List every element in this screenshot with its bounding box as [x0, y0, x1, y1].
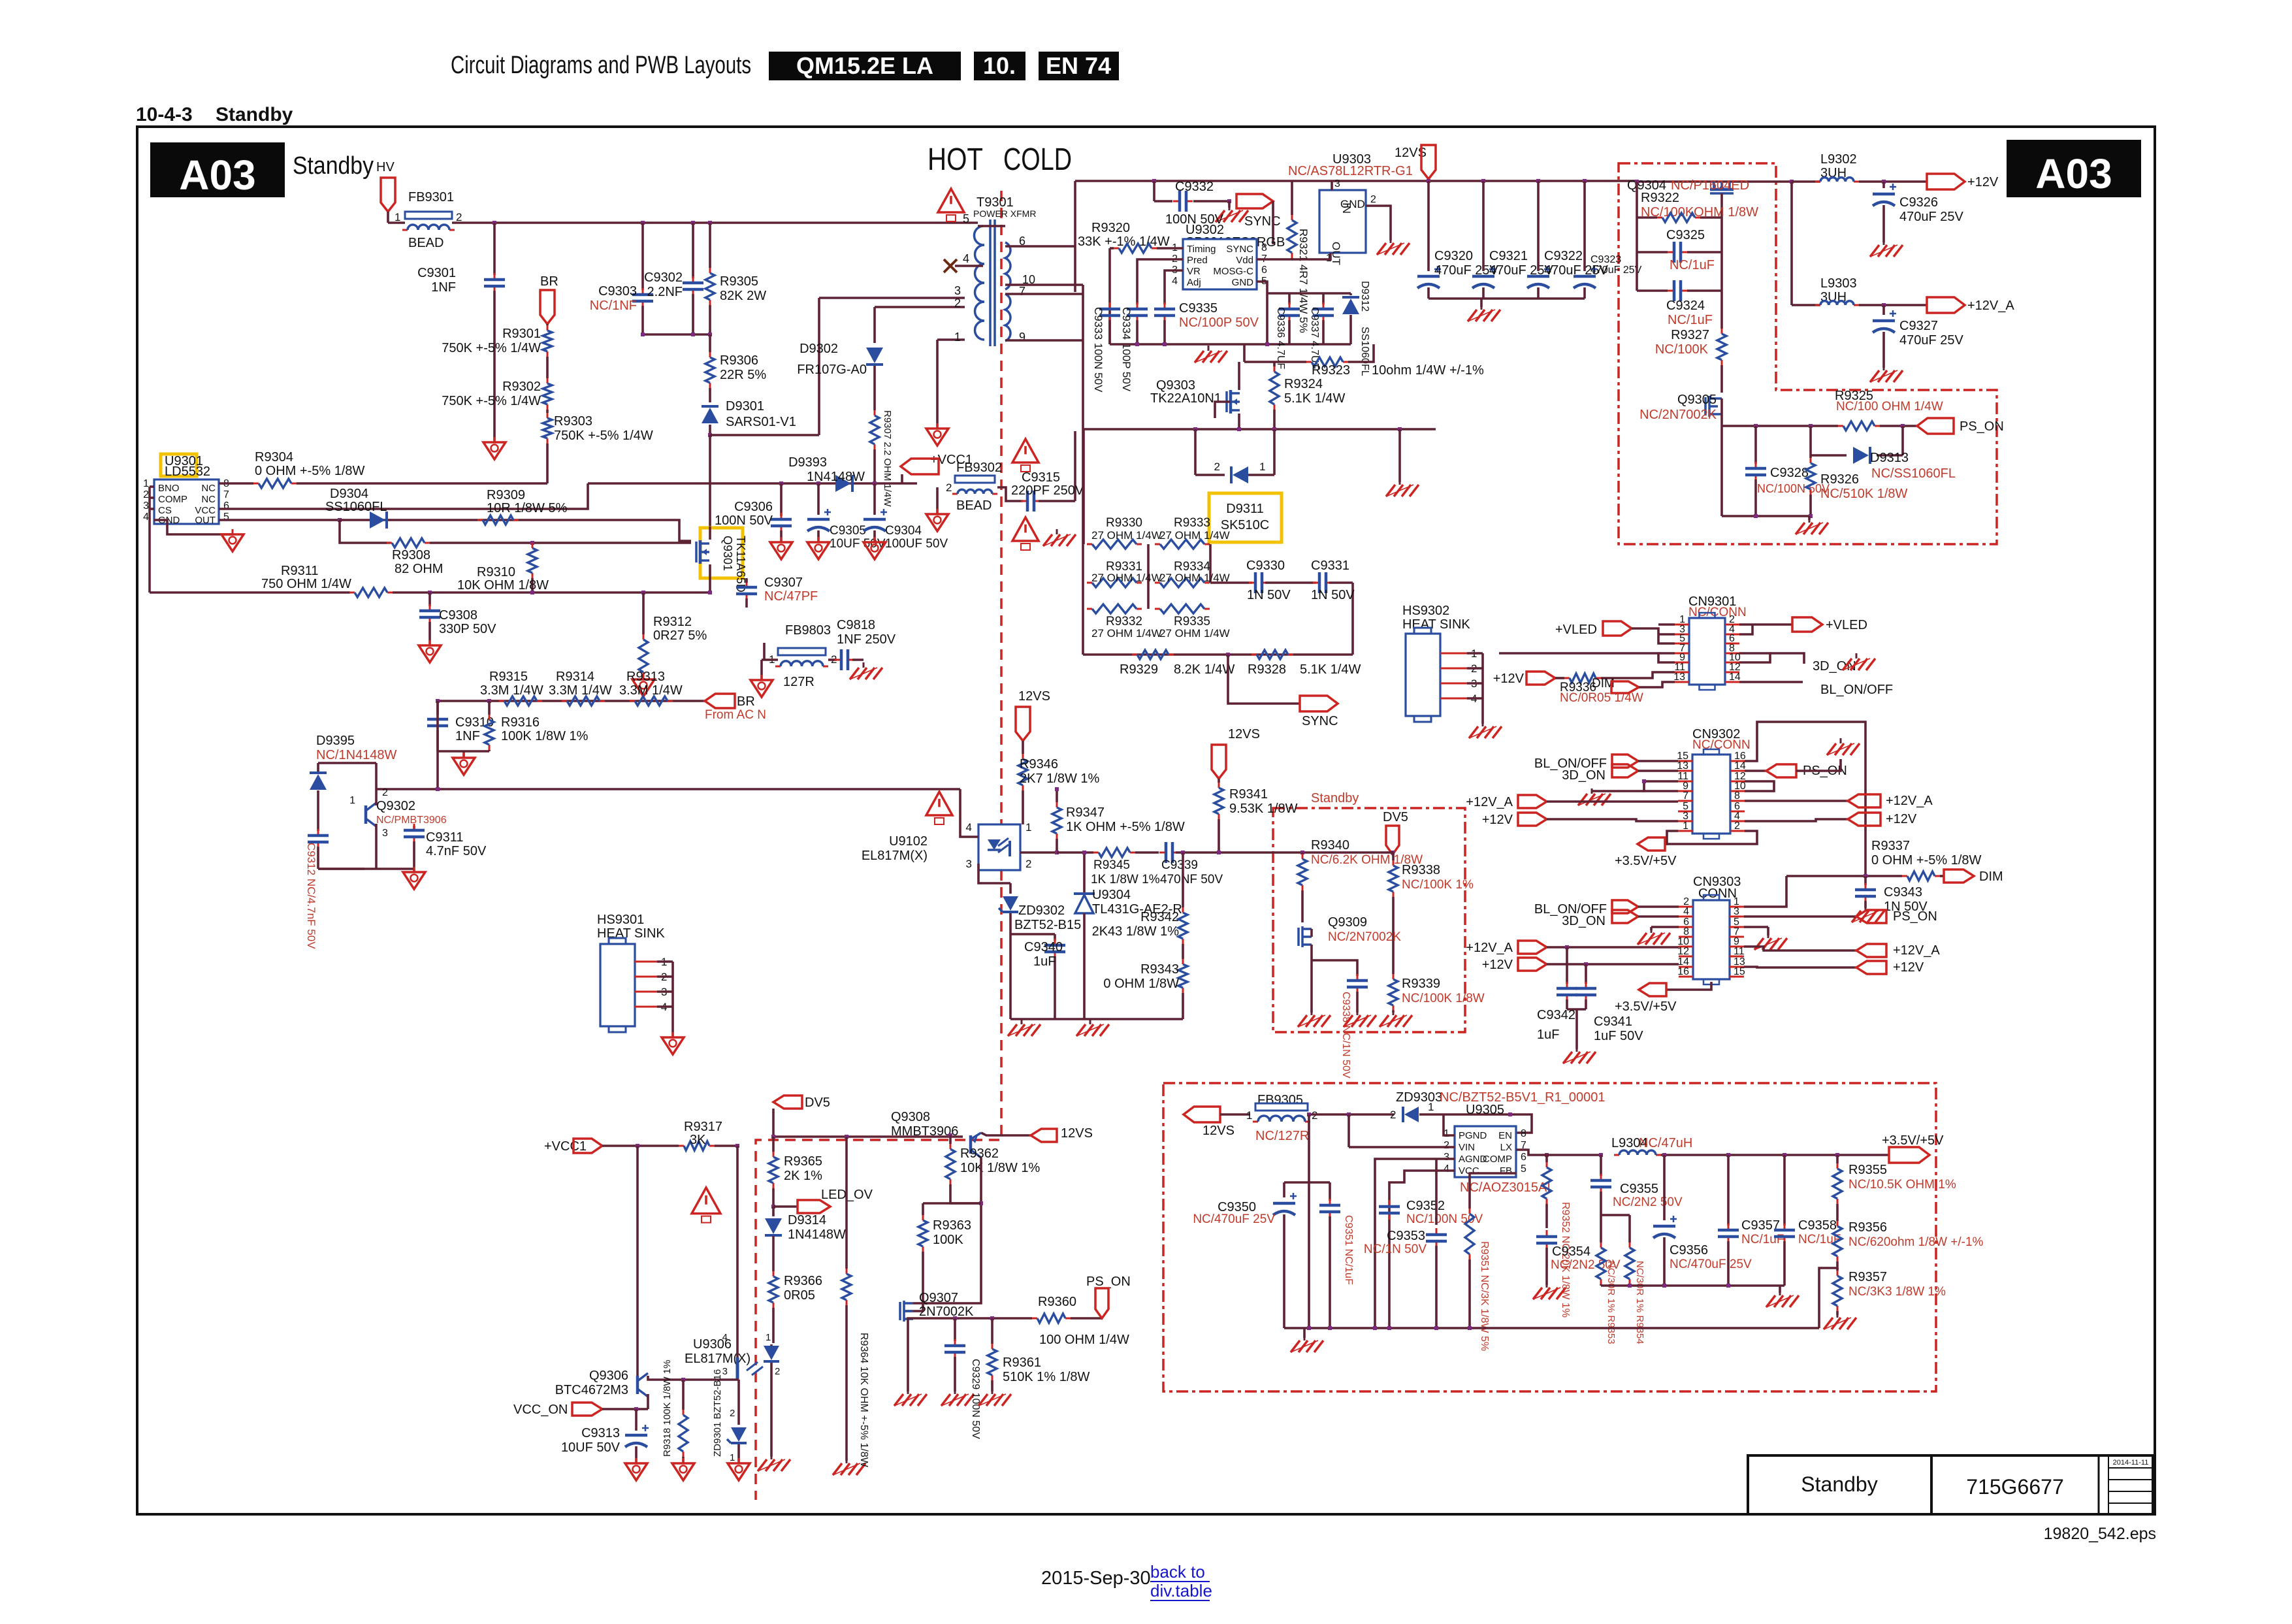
- svg-text:HEAT SINK: HEAT SINK: [1402, 617, 1470, 632]
- svg-text:C9818: C9818: [837, 618, 875, 632]
- svg-text:C9343: C9343: [1884, 885, 1922, 900]
- svg-text:NC/100K 1/8W: NC/100K 1/8W: [1402, 992, 1485, 1005]
- svg-text:PS_ON: PS_ON: [1893, 909, 1937, 924]
- svg-text:R9318 100K 1/8W 1%: R9318 100K 1/8W 1%: [662, 1360, 673, 1457]
- svg-text:4: 4: [1444, 1163, 1449, 1175]
- svg-text:1uF 50V: 1uF 50V: [1594, 1029, 1643, 1043]
- svg-text:R9313: R9313: [626, 670, 665, 684]
- svg-text:2: 2: [730, 1408, 735, 1419]
- svg-text:EL817M(X): EL817M(X): [862, 849, 928, 863]
- svg-text:R9362: R9362: [960, 1146, 999, 1161]
- svg-text:1uF: 1uF: [1537, 1028, 1559, 1042]
- svg-text:+12V_A: +12V_A: [1466, 795, 1513, 809]
- svg-text:FR107G-A0: FR107G-A0: [797, 363, 867, 377]
- svg-text:10R 1/8W 5%: 10R 1/8W 5%: [487, 501, 568, 515]
- svg-text:2: 2: [954, 297, 961, 310]
- svg-text:1: 1: [143, 478, 149, 489]
- svg-text:Q9308: Q9308: [891, 1110, 930, 1124]
- svg-text:NC/30R 1% R9353: NC/30R 1% R9353: [1606, 1261, 1617, 1344]
- svg-text:FB9302: FB9302: [956, 461, 1002, 475]
- svg-text:C9351 NC/1uF: C9351 NC/1uF: [1343, 1215, 1354, 1285]
- svg-text:back to: back to: [1150, 1562, 1205, 1582]
- svg-text:HS9301: HS9301: [597, 913, 644, 927]
- svg-text:U9102: U9102: [889, 834, 928, 849]
- svg-text:NC/P1604ED: NC/P1604ED: [1671, 178, 1749, 193]
- svg-text:R9316: R9316: [501, 715, 540, 730]
- svg-text:D9314: D9314: [788, 1213, 826, 1227]
- svg-text:2: 2: [1444, 1140, 1449, 1151]
- svg-text:R9335: R9335: [1174, 615, 1210, 628]
- svg-text:12: 12: [1677, 946, 1689, 957]
- svg-text:0R27 5%: 0R27 5%: [653, 628, 707, 643]
- svg-text:QM15.2E LA: QM15.2E LA: [796, 52, 933, 79]
- svg-text:LX: LX: [1500, 1142, 1512, 1153]
- svg-text:14: 14: [1729, 672, 1741, 683]
- svg-text:10UF 50V: 10UF 50V: [830, 537, 886, 551]
- svg-text:Q9309: Q9309: [1328, 915, 1367, 930]
- svg-text:9: 9: [1019, 331, 1025, 344]
- svg-text:15: 15: [1734, 966, 1745, 977]
- svg-text:+12V: +12V: [1886, 812, 1917, 826]
- svg-text:2: 2: [143, 489, 149, 500]
- svg-text:EN 74: EN 74: [1046, 52, 1111, 79]
- svg-text:2: 2: [382, 787, 388, 798]
- svg-text:C9306: C9306: [734, 500, 773, 514]
- svg-text:C9307: C9307: [764, 576, 803, 590]
- svg-text:+3.5V/+5V: +3.5V/+5V: [1615, 999, 1677, 1014]
- svg-text:R9328: R9328: [1248, 662, 1286, 677]
- svg-text:5: 5: [963, 212, 969, 225]
- svg-text:100UF 50V: 100UF 50V: [885, 537, 948, 551]
- svg-text:NC/127R: NC/127R: [1255, 1129, 1309, 1143]
- svg-text:C9328: C9328: [1770, 466, 1809, 480]
- svg-text:+12V_A: +12V_A: [1967, 299, 2014, 313]
- svg-text:NC/AOZ3015AI: NC/AOZ3015AI: [1460, 1180, 1551, 1195]
- svg-text:NC/100K: NC/100K: [1655, 342, 1709, 357]
- svg-text:R9347: R9347: [1066, 805, 1105, 820]
- svg-text:100N 50V: 100N 50V: [715, 513, 773, 528]
- svg-text:+3.5V/+5V: +3.5V/+5V: [1615, 854, 1677, 868]
- svg-text:BTC4672M3: BTC4672M3: [555, 1383, 628, 1397]
- svg-text:R9360: R9360: [1038, 1295, 1076, 1309]
- svg-text:C9322: C9322: [1544, 249, 1583, 263]
- svg-text:NC/1N4148W: NC/1N4148W: [316, 748, 397, 762]
- svg-text:C9303: C9303: [598, 284, 637, 299]
- svg-text:NC/CONN: NC/CONN: [1692, 738, 1751, 752]
- svg-text:C9302: C9302: [644, 270, 683, 285]
- svg-text:R9357: R9357: [1848, 1270, 1887, 1284]
- svg-text:R9309: R9309: [487, 488, 525, 502]
- svg-text:NC/100 OHM 1/4W: NC/100 OHM 1/4W: [1836, 400, 1943, 414]
- svg-text:NC/470uF 25V: NC/470uF 25V: [1670, 1258, 1752, 1271]
- svg-text:C9312 NC/4.7nF 50V: C9312 NC/4.7nF 50V: [305, 843, 317, 949]
- svg-text:750K +-5% 1/4W: 750K +-5% 1/4W: [442, 394, 541, 408]
- svg-text:1: 1: [954, 331, 961, 344]
- svg-text:BEAD: BEAD: [408, 236, 444, 250]
- svg-text:2K7 1/8W 1%: 2K7 1/8W 1%: [1020, 771, 1100, 786]
- svg-text:SS1060FL: SS1060FL: [325, 500, 387, 514]
- svg-text:PS_ON: PS_ON: [1960, 419, 2004, 434]
- svg-text:R9363: R9363: [933, 1218, 971, 1233]
- svg-text:3: 3: [954, 284, 961, 297]
- svg-text:C9340: C9340: [1024, 940, 1063, 954]
- svg-text:NC/SS1060FL: NC/SS1060FL: [1871, 466, 1956, 481]
- svg-text:NC/47uH: NC/47uH: [1639, 1136, 1692, 1150]
- svg-text:D9302: D9302: [799, 342, 838, 356]
- svg-text:GND: GND: [1340, 198, 1365, 210]
- svg-text:14: 14: [1734, 760, 1746, 771]
- svg-text:27 OHM 1/4W: 27 OHM 1/4W: [1159, 529, 1230, 542]
- svg-text:1N 50V: 1N 50V: [1311, 588, 1355, 602]
- svg-text:COLD: COLD: [1003, 142, 1072, 177]
- svg-text:11: 11: [1734, 946, 1745, 957]
- svg-text:3.3M 1/4W: 3.3M 1/4W: [549, 683, 612, 698]
- svg-text:NC/100N 50V: NC/100N 50V: [1757, 482, 1830, 495]
- svg-text:2: 2: [1025, 858, 1031, 870]
- svg-text:R9305: R9305: [720, 274, 758, 289]
- svg-text:27 OHM 1/4W: 27 OHM 1/4W: [1091, 529, 1162, 542]
- svg-text:510K 1% 1/8W: 510K 1% 1/8W: [1003, 1370, 1090, 1384]
- svg-text:PGND: PGND: [1459, 1130, 1487, 1141]
- svg-text:HEAT SINK: HEAT SINK: [597, 926, 665, 941]
- svg-text:2014-11-11: 2014-11-11: [2113, 1459, 2149, 1467]
- svg-text:+12V: +12V: [1967, 175, 1999, 189]
- svg-text:ZD9302: ZD9302: [1018, 903, 1065, 918]
- svg-text:R9317: R9317: [684, 1120, 722, 1134]
- svg-text:FB9305: FB9305: [1257, 1093, 1303, 1107]
- svg-text:R9337: R9337: [1871, 839, 1910, 853]
- svg-text:NC/620ohm 1/8W +/-1%: NC/620ohm 1/8W +/-1%: [1848, 1235, 1984, 1249]
- svg-text:R9301: R9301: [502, 327, 541, 341]
- svg-text:5: 5: [1521, 1163, 1526, 1175]
- svg-text:NC/47PF: NC/47PF: [764, 589, 818, 604]
- svg-text:GND: GND: [1232, 277, 1254, 288]
- svg-text:+12V_A: +12V_A: [1886, 794, 1933, 808]
- svg-text:From AC N: From AC N: [705, 708, 766, 722]
- svg-text:EL817M(X): EL817M(X): [685, 1352, 751, 1366]
- svg-text:NC/AS78L12RTR-G1: NC/AS78L12RTR-G1: [1288, 164, 1413, 178]
- svg-text:470uF 25V: 470uF 25V: [1899, 333, 1964, 348]
- svg-text:NC/2N7002K: NC/2N7002K: [1639, 408, 1717, 422]
- svg-text:OUT: OUT: [195, 515, 216, 526]
- svg-text:R9311: R9311: [281, 564, 318, 578]
- svg-text:MOSG-C: MOSG-C: [1213, 266, 1253, 277]
- svg-text:R9355: R9355: [1848, 1163, 1887, 1177]
- svg-text:R9339: R9339: [1402, 977, 1440, 991]
- svg-text:SS1060FL: SS1060FL: [1359, 327, 1370, 376]
- svg-text:6: 6: [1521, 1152, 1526, 1163]
- svg-text:R9306: R9306: [720, 353, 758, 368]
- svg-text:1NF 250V: 1NF 250V: [837, 632, 896, 647]
- svg-text:R9304: R9304: [255, 450, 293, 464]
- svg-text:Standby: Standby: [216, 104, 293, 125]
- svg-text:R9342: R9342: [1140, 910, 1179, 924]
- svg-text:DIM: DIM: [1979, 869, 2003, 884]
- svg-text:C9311: C9311: [426, 830, 463, 845]
- svg-text:+12V: +12V: [1893, 960, 1924, 975]
- svg-text:4: 4: [966, 821, 972, 834]
- svg-text:R9310: R9310: [477, 565, 515, 579]
- svg-text:D9313: D9313: [1870, 451, 1909, 465]
- svg-text:2: 2: [1734, 820, 1740, 832]
- svg-text:1: 1: [1259, 461, 1265, 473]
- svg-text:1: 1: [766, 1332, 771, 1343]
- svg-text:1N4148W: 1N4148W: [788, 1227, 846, 1242]
- svg-text:C9330: C9330: [1246, 559, 1285, 573]
- svg-text:10ohm 1/4W +/-1%: 10ohm 1/4W +/-1%: [1372, 363, 1484, 378]
- svg-text:Timing: Timing: [1187, 244, 1216, 255]
- svg-text:NC: NC: [201, 483, 216, 494]
- svg-text:1NF: 1NF: [431, 280, 456, 295]
- svg-text:470uF 25V: 470uF 25V: [1590, 265, 1642, 276]
- svg-text:R9361: R9361: [1003, 1356, 1041, 1370]
- svg-text:R9315: R9315: [489, 670, 528, 684]
- svg-text:+12V: +12V: [1493, 672, 1525, 686]
- svg-text:C9323: C9323: [1590, 254, 1621, 265]
- svg-text:+3.5V/+5V: +3.5V/+5V: [1882, 1133, 1944, 1148]
- svg-text:C9358: C9358: [1798, 1218, 1837, 1233]
- svg-text:4: 4: [1172, 276, 1178, 287]
- svg-text:+12V: +12V: [1482, 813, 1513, 827]
- svg-text:R9302: R9302: [502, 380, 541, 394]
- svg-text:C9356: C9356: [1670, 1243, 1708, 1258]
- svg-text:Pred: Pred: [1187, 255, 1208, 266]
- svg-text:4: 4: [143, 512, 149, 523]
- svg-text:1: 1: [730, 1452, 735, 1463]
- svg-text:Standby: Standby: [1801, 1472, 1877, 1496]
- svg-text:Q9307: Q9307: [919, 1291, 958, 1305]
- svg-text:1: 1: [1025, 821, 1031, 834]
- svg-text:16: 16: [1677, 966, 1689, 977]
- svg-text:HS9302: HS9302: [1402, 604, 1449, 618]
- svg-text:10UF 50V: 10UF 50V: [561, 1440, 621, 1455]
- svg-text:TK22A10N1: TK22A10N1: [1150, 391, 1221, 406]
- svg-text:HV: HV: [376, 160, 395, 174]
- svg-text:0 OHM +-5% 1/8W: 0 OHM +-5% 1/8W: [1871, 853, 1982, 868]
- svg-text:BEAD: BEAD: [956, 498, 992, 513]
- svg-text:NC/100P 50V: NC/100P 50V: [1179, 316, 1259, 330]
- svg-text:D9301: D9301: [726, 399, 764, 414]
- svg-text:+12V: +12V: [1482, 958, 1513, 972]
- svg-text:C9335: C9335: [1179, 301, 1218, 316]
- svg-text:C9325: C9325: [1666, 228, 1705, 242]
- svg-text:NC/0R05 1/4W: NC/0R05 1/4W: [1560, 691, 1643, 705]
- svg-text:NC/1uF: NC/1uF: [1741, 1233, 1784, 1246]
- svg-text:POWER XFMR: POWER XFMR: [973, 208, 1036, 219]
- svg-text:9.53K 1/8W: 9.53K 1/8W: [1229, 802, 1298, 816]
- svg-text:R9312: R9312: [653, 615, 692, 629]
- svg-text:C9329 100N 50V: C9329 100N 50V: [970, 1359, 981, 1439]
- svg-text:BR: BR: [540, 274, 558, 289]
- svg-text:R9307 2.2 OHM 1/4W: R9307 2.2 OHM 1/4W: [882, 410, 893, 507]
- svg-text:127R: 127R: [783, 675, 815, 689]
- svg-text:NC/BZT52-B5V1_R1_00001: NC/BZT52-B5V1_R1_00001: [1440, 1090, 1605, 1105]
- svg-text:EN: EN: [1498, 1130, 1512, 1141]
- svg-text:3.3M 1/4W: 3.3M 1/4W: [480, 683, 543, 698]
- svg-text:COMP: COMP: [1483, 1154, 1512, 1165]
- svg-text:NC/2N2 50V: NC/2N2 50V: [1613, 1195, 1683, 1209]
- svg-text:100 OHM 1/4W: 100 OHM 1/4W: [1039, 1333, 1129, 1347]
- svg-text:R9345: R9345: [1093, 858, 1130, 872]
- svg-text:33K +-1% 1/4W: 33K +-1% 1/4W: [1078, 235, 1170, 249]
- svg-text:Q9301: Q9301: [721, 536, 734, 571]
- svg-text:8: 8: [1261, 242, 1267, 253]
- svg-text:8.2K 1/4W: 8.2K 1/4W: [1174, 662, 1235, 677]
- svg-text:1N 50V: 1N 50V: [1247, 588, 1291, 602]
- svg-text:C9331: C9331: [1311, 559, 1349, 573]
- svg-text:12VS: 12VS: [1228, 727, 1260, 741]
- svg-text:C9326: C9326: [1899, 195, 1938, 210]
- svg-text:ZD9303: ZD9303: [1396, 1090, 1442, 1105]
- svg-text:R9314: R9314: [556, 670, 594, 684]
- svg-text:2K43 1/8W 1%: 2K43 1/8W 1%: [1092, 924, 1180, 939]
- svg-text:R9364 10K OHM +-5% 1/8W: R9364 10K OHM +-5% 1/8W: [858, 1333, 869, 1468]
- svg-text:8: 8: [1734, 790, 1740, 802]
- svg-text:4.7nF 50V: 4.7nF 50V: [426, 844, 487, 858]
- svg-text:TK11A65D: TK11A65D: [734, 536, 747, 593]
- svg-text:DV5: DV5: [805, 1096, 830, 1110]
- svg-text:R9343: R9343: [1140, 962, 1179, 977]
- svg-text:R9329: R9329: [1120, 662, 1158, 677]
- svg-text:12VS: 12VS: [1202, 1124, 1235, 1138]
- svg-text:+VLED: +VLED: [1826, 618, 1867, 632]
- svg-text:NC/3K3 1/8W 1%: NC/3K3 1/8W 1%: [1848, 1285, 1946, 1299]
- svg-text:NC/10.5K OHM 1%: NC/10.5K OHM 1%: [1848, 1178, 1956, 1192]
- svg-text:750 OHM 1/4W: 750 OHM 1/4W: [261, 577, 351, 591]
- svg-text:R9338: R9338: [1402, 863, 1440, 877]
- svg-text:D9311: D9311: [1226, 502, 1263, 516]
- svg-text:82 OHM: 82 OHM: [395, 562, 443, 576]
- svg-text:NC/1uF: NC/1uF: [1668, 313, 1713, 327]
- svg-text:22R 5%: 22R 5%: [720, 368, 766, 382]
- svg-text:SYNC: SYNC: [1226, 244, 1253, 255]
- svg-text:+12V_A: +12V_A: [1893, 943, 1940, 958]
- svg-text:82K 2W: 82K 2W: [720, 289, 766, 303]
- svg-text:2: 2: [456, 211, 462, 223]
- svg-text:2.2NF: 2.2NF: [647, 285, 683, 299]
- svg-text:R9356: R9356: [1848, 1220, 1887, 1235]
- svg-text:Circuit Diagrams and PWB Layou: Circuit Diagrams and PWB Layouts: [451, 52, 751, 79]
- svg-text:C9355: C9355: [1620, 1182, 1658, 1196]
- svg-text:NC/1N 50V: NC/1N 50V: [1364, 1242, 1427, 1256]
- svg-text:C9333 100N 50V: C9333 100N 50V: [1092, 307, 1105, 393]
- svg-text:10K OHM 1/8W: 10K OHM 1/8W: [457, 578, 549, 593]
- svg-text:1uF: 1uF: [1033, 954, 1056, 969]
- svg-text:SARS01-V1: SARS01-V1: [726, 415, 796, 429]
- svg-text:3: 3: [1444, 1152, 1449, 1163]
- svg-text:1NF: 1NF: [455, 729, 480, 743]
- svg-text:R9323: R9323: [1312, 363, 1350, 378]
- svg-text:R9327: R9327: [1671, 328, 1709, 342]
- svg-text:27 OHM 1/4W: 27 OHM 1/4W: [1159, 627, 1230, 640]
- svg-text:4: 4: [1683, 906, 1689, 917]
- svg-text:3: 3: [966, 858, 972, 870]
- svg-text:470NF 50V: 470NF 50V: [1160, 873, 1223, 886]
- svg-text:L9303: L9303: [1820, 276, 1857, 291]
- svg-text:3: 3: [1334, 178, 1340, 189]
- svg-text:FB: FB: [1500, 1165, 1512, 1177]
- svg-text:C9305: C9305: [830, 524, 866, 538]
- svg-text:FB9803: FB9803: [785, 623, 831, 638]
- svg-text:R9351 NC/3K 1/8W 5%: R9351 NC/3K 1/8W 5%: [1479, 1241, 1490, 1351]
- svg-text:3D_ON: 3D_ON: [1562, 768, 1606, 783]
- svg-text:C9352: C9352: [1406, 1199, 1445, 1213]
- svg-text:BZT52-B15: BZT52-B15: [1014, 918, 1081, 932]
- svg-text:NC/30R 1% R9354: NC/30R 1% R9354: [1634, 1261, 1645, 1344]
- svg-text:10K 1/8W 1%: 10K 1/8W 1%: [960, 1161, 1041, 1175]
- svg-text:C9336 4.7UF: C9336 4.7UF: [1275, 307, 1286, 369]
- svg-text:C9324: C9324: [1666, 299, 1705, 313]
- svg-text:Q9303: Q9303: [1156, 378, 1195, 393]
- svg-text:D9304: D9304: [330, 487, 368, 501]
- svg-text:470uF 25V: 470uF 25V: [1899, 210, 1964, 224]
- svg-text:D9395: D9395: [316, 734, 355, 748]
- svg-text:NC/100K 1%: NC/100K 1%: [1402, 878, 1474, 892]
- svg-text:3: 3: [143, 500, 149, 512]
- svg-text:12VS: 12VS: [1018, 689, 1050, 704]
- svg-text:C9327: C9327: [1899, 319, 1938, 333]
- svg-text:0 OHM 1/8W: 0 OHM 1/8W: [1103, 977, 1179, 991]
- svg-text:7: 7: [1019, 285, 1025, 298]
- svg-text:7: 7: [223, 489, 229, 500]
- svg-text:MMBT3906: MMBT3906: [891, 1124, 958, 1139]
- svg-text:3K: 3K: [690, 1133, 706, 1147]
- svg-text:R9365: R9365: [784, 1154, 822, 1169]
- svg-text:NC/2N7002K: NC/2N7002K: [1328, 930, 1401, 944]
- svg-text:+12V_A: +12V_A: [1466, 941, 1513, 955]
- svg-text:FB9301: FB9301: [408, 190, 454, 204]
- svg-text:2: 2: [1214, 461, 1220, 473]
- svg-text:R9308: R9308: [392, 548, 430, 562]
- svg-text:C9320: C9320: [1434, 249, 1473, 263]
- svg-text:C9334 100P 50V: C9334 100P 50V: [1120, 307, 1133, 392]
- svg-text:NC/510K 1/8W: NC/510K 1/8W: [1820, 487, 1908, 501]
- svg-text:220PF 250V: 220PF 250V: [1011, 483, 1084, 498]
- svg-text:R9346: R9346: [1020, 757, 1058, 771]
- svg-text:NC/PMBT3906: NC/PMBT3906: [376, 815, 447, 826]
- svg-text:U9305: U9305: [1466, 1103, 1504, 1117]
- svg-text:100K: 100K: [933, 1233, 963, 1247]
- svg-text:C9354: C9354: [1552, 1244, 1590, 1259]
- svg-text:2: 2: [775, 1366, 780, 1377]
- svg-text:C9321: C9321: [1489, 249, 1528, 263]
- svg-text:1K OHM +-5% 1/8W: 1K OHM +-5% 1/8W: [1066, 820, 1185, 834]
- svg-text:Vdd: Vdd: [1236, 255, 1253, 266]
- svg-text:1: 1: [349, 795, 355, 806]
- svg-text:VCC_ON: VCC_ON: [513, 1403, 568, 1417]
- svg-text:2015-Sep-30: 2015-Sep-30: [1041, 1568, 1151, 1589]
- svg-text:C9313: C9313: [581, 1426, 620, 1440]
- svg-text:R9320: R9320: [1091, 221, 1130, 235]
- svg-text:DV5: DV5: [1383, 810, 1408, 824]
- svg-text:1: 1: [1683, 820, 1688, 832]
- svg-text:2N7002K: 2N7002K: [919, 1305, 974, 1319]
- svg-text:HOT: HOT: [928, 142, 983, 177]
- svg-text:Standby: Standby: [1311, 791, 1359, 805]
- svg-text:R9321 4R7 1/4W 5%: R9321 4R7 1/4W 5%: [1297, 229, 1310, 333]
- svg-text:ZD9301 BZT52-B16: ZD9301 BZT52-B16: [712, 1369, 723, 1457]
- svg-text:4: 4: [722, 1332, 728, 1343]
- svg-text:C9353: C9353: [1387, 1229, 1425, 1243]
- svg-text:div.table: div.table: [1150, 1581, 1212, 1600]
- svg-text:LD5532: LD5532: [165, 464, 210, 479]
- svg-text:R9303: R9303: [554, 414, 592, 429]
- svg-text:5.1K 1/4W: 5.1K 1/4W: [1284, 391, 1346, 406]
- svg-text:C9308: C9308: [439, 608, 477, 623]
- svg-text:8: 8: [1521, 1128, 1526, 1139]
- svg-text:6: 6: [1261, 265, 1267, 276]
- svg-text:C9304: C9304: [885, 524, 922, 538]
